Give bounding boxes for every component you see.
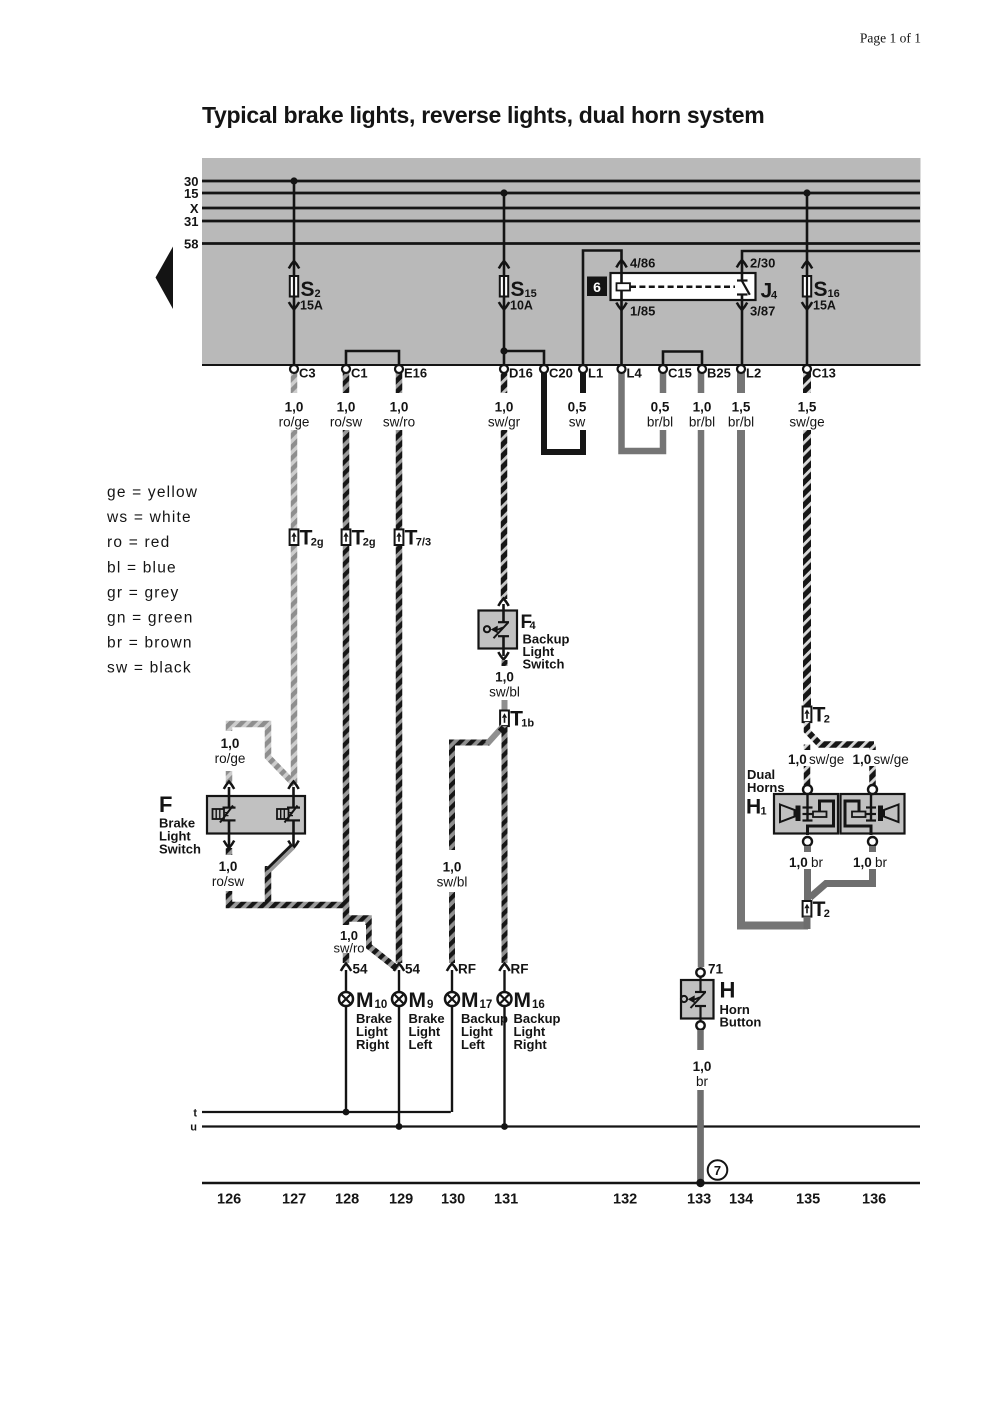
lamp M9 brake light left bbox=[392, 970, 445, 1052]
svg-text:15A: 15A bbox=[300, 299, 323, 313]
wire T2 to horns sw/ge bbox=[807, 722, 874, 785]
pin 1/85 bbox=[616, 303, 655, 319]
svg-text:RF: RF bbox=[511, 962, 529, 977]
wire T2 lower to L2 junction bbox=[804, 917, 811, 930]
svg-text:1,0: 1,0 bbox=[495, 670, 514, 685]
svg-text:1: 1 bbox=[761, 806, 767, 818]
svg-text:M: M bbox=[356, 989, 374, 1012]
diagram title bbox=[202, 102, 764, 128]
brake light switch F bbox=[159, 782, 305, 857]
svg-text:130: 130 bbox=[441, 1192, 465, 1208]
svg-text:1,0: 1,0 bbox=[390, 400, 409, 415]
horn button H bbox=[681, 977, 762, 1030]
lamp M17 backup light left bbox=[445, 970, 508, 1052]
svg-text:M: M bbox=[461, 989, 479, 1012]
svg-text:1,0: 1,0 bbox=[693, 400, 712, 415]
svg-text:1/85: 1/85 bbox=[630, 304, 655, 319]
current track numbers bbox=[217, 1192, 886, 1208]
fuse S16 15A bbox=[802, 189, 840, 368]
svg-text:7: 7 bbox=[714, 1163, 721, 1178]
fuse S2 15A bbox=[289, 177, 323, 368]
svg-text:sw/ge: sw/ge bbox=[809, 752, 844, 767]
connector T1b bbox=[500, 708, 534, 731]
horn button lower terminal bbox=[696, 1021, 704, 1029]
wire T1b to M16 sw/bl bbox=[502, 726, 508, 963]
svg-text:129: 129 bbox=[389, 1192, 413, 1208]
svg-text:54: 54 bbox=[405, 962, 421, 977]
wire labels below terminals bbox=[275, 393, 826, 430]
label dual horns H1 bbox=[746, 767, 785, 819]
svg-text:br = brown: br = brown bbox=[107, 635, 193, 652]
svg-text:br/bl: br/bl bbox=[689, 415, 715, 430]
svg-text:sw: sw bbox=[569, 415, 586, 430]
ground junction dot 133 bbox=[696, 1179, 704, 1187]
wire F4 to T1b sw/bl bbox=[502, 660, 508, 711]
svg-text:C1: C1 bbox=[351, 366, 368, 381]
svg-text:10: 10 bbox=[375, 999, 388, 1011]
svg-text:sw/ge: sw/ge bbox=[789, 415, 824, 430]
svg-text:sw/ro: sw/ro bbox=[333, 941, 364, 956]
svg-text:gr = grey: gr = grey bbox=[107, 584, 179, 601]
svg-text:131: 131 bbox=[494, 1192, 518, 1208]
svg-text:127: 127 bbox=[282, 1192, 306, 1208]
ground wire M16 bbox=[503, 1006, 505, 1127]
svg-text:0,5: 0,5 bbox=[651, 400, 670, 415]
wire C13 sw/ge bbox=[803, 371, 811, 707]
svg-text:134: 134 bbox=[729, 1192, 753, 1208]
wire branch to M17 sw/bl bbox=[452, 727, 504, 964]
svg-text:Horns: Horns bbox=[747, 780, 785, 795]
svg-text:15: 15 bbox=[184, 186, 198, 201]
wire horn grounds br bbox=[808, 846, 873, 901]
svg-text:1,0: 1,0 bbox=[221, 736, 240, 751]
svg-text:C15: C15 bbox=[668, 366, 692, 381]
svg-text:br/bl: br/bl bbox=[728, 415, 754, 430]
svg-text:L4: L4 bbox=[627, 366, 643, 381]
connector T2g on C1 wire bbox=[342, 526, 376, 549]
svg-text:Button: Button bbox=[720, 1015, 762, 1030]
svg-text:2g: 2g bbox=[311, 536, 324, 548]
connector T7/3 on E16 wire bbox=[395, 526, 431, 549]
svg-text:6: 6 bbox=[593, 279, 601, 295]
label 1,0 br under horn button bbox=[683, 1050, 719, 1090]
svg-text:Right: Right bbox=[514, 1037, 548, 1052]
svg-text:1,0: 1,0 bbox=[853, 752, 872, 767]
svg-text:t: t bbox=[193, 1108, 197, 1120]
relay J4 horn relay bbox=[587, 273, 778, 303]
svg-text:1,0: 1,0 bbox=[285, 400, 304, 415]
svg-text:9: 9 bbox=[427, 999, 433, 1011]
lamp M10 brake light right bbox=[339, 970, 392, 1052]
junction dots on ground buses bbox=[343, 1109, 508, 1130]
svg-text:133: 133 bbox=[687, 1192, 711, 1208]
svg-text:10A: 10A bbox=[510, 299, 533, 313]
wire junction to M10 bbox=[343, 905, 350, 963]
svg-text:1,0: 1,0 bbox=[693, 1059, 712, 1074]
wire C1 ro/sw bbox=[343, 371, 350, 908]
horn 2 of H1 bbox=[841, 788, 905, 835]
svg-text:D16: D16 bbox=[509, 366, 533, 381]
svg-text:7/3: 7/3 bbox=[416, 536, 431, 548]
page header bbox=[860, 31, 921, 46]
svg-text:M: M bbox=[409, 989, 427, 1012]
svg-text:br: br bbox=[696, 1074, 709, 1089]
terminal RF at M17 bbox=[447, 962, 476, 977]
label 1,0 ro/ge above F bbox=[211, 731, 249, 771]
bus bar 30 bbox=[184, 174, 920, 189]
wire E16 sw/ro bbox=[396, 371, 403, 963]
label 1,0 sw/bl under F4 bbox=[486, 666, 523, 700]
svg-text:1,0: 1,0 bbox=[789, 855, 808, 870]
labels 1,0 br at horns bbox=[788, 852, 890, 870]
wire C20-L1 sw loop bbox=[544, 371, 583, 452]
bus bar 15 bbox=[184, 186, 920, 201]
svg-text:Typical brake lights, reverse: Typical brake lights, reverse lights, du… bbox=[202, 102, 764, 128]
svg-text:135: 135 bbox=[796, 1192, 820, 1208]
svg-text:132: 132 bbox=[613, 1192, 637, 1208]
svg-text:C13: C13 bbox=[812, 366, 836, 381]
svg-text:3/87: 3/87 bbox=[750, 304, 775, 319]
svg-text:C3: C3 bbox=[299, 366, 316, 381]
pin 2/30 bbox=[737, 256, 776, 271]
svg-text:0,5: 0,5 bbox=[568, 400, 587, 415]
svg-text:Switch: Switch bbox=[523, 657, 565, 672]
ground wire M10 bbox=[345, 1006, 347, 1112]
wire jumper ro/sw below F bbox=[229, 845, 346, 905]
svg-text:br: br bbox=[811, 855, 824, 870]
backup light switch F4 bbox=[479, 599, 570, 672]
svg-text:4/86: 4/86 bbox=[630, 256, 655, 271]
svg-text:H: H bbox=[720, 978, 736, 1003]
labels 1,0 sw/ge at horns bbox=[788, 750, 909, 767]
wire J4 pin 3/87 to L2 bbox=[741, 295, 744, 369]
svg-text:ro/ge: ro/ge bbox=[279, 415, 310, 430]
bus bar X bbox=[190, 201, 920, 216]
svg-text:15A: 15A bbox=[813, 299, 836, 313]
svg-text:ro/sw: ro/sw bbox=[212, 874, 245, 889]
svg-text:Switch: Switch bbox=[159, 842, 201, 857]
svg-text:sw/bl: sw/bl bbox=[437, 875, 468, 890]
svg-text:1,0: 1,0 bbox=[443, 860, 462, 875]
label 1,0 ro/sw below F bbox=[209, 855, 249, 891]
svg-text:1,0: 1,0 bbox=[788, 752, 807, 767]
ground bus u bbox=[190, 1122, 920, 1134]
label 1,0 sw/bl on M17 branch bbox=[433, 850, 473, 892]
svg-text:gn = green: gn = green bbox=[107, 610, 194, 627]
svg-text:H: H bbox=[746, 796, 761, 819]
bus bar 31 bbox=[184, 214, 920, 229]
svg-text:54: 54 bbox=[353, 962, 369, 977]
bridge D16-C20 with junction bbox=[500, 347, 544, 368]
svg-text:31: 31 bbox=[184, 214, 198, 229]
svg-text:F: F bbox=[159, 792, 172, 817]
svg-text:136: 136 bbox=[862, 1192, 886, 1208]
svg-text:sw/ro: sw/ro bbox=[383, 415, 415, 430]
wire horn button to ground br bbox=[697, 1030, 704, 1183]
svg-text:Left: Left bbox=[461, 1037, 486, 1052]
svg-text:L1: L1 bbox=[588, 366, 603, 381]
svg-text:126: 126 bbox=[217, 1192, 241, 1208]
svg-text:71: 71 bbox=[708, 962, 724, 977]
wire L4-C15 br/bl loop bbox=[622, 371, 664, 451]
wire zigzag to M9 bbox=[346, 919, 398, 970]
svg-text:sw/ge: sw/ge bbox=[874, 752, 909, 767]
lamp M16 backup light right bbox=[498, 970, 561, 1052]
svg-text:1,0: 1,0 bbox=[337, 400, 356, 415]
svg-text:sw = black: sw = black bbox=[107, 660, 192, 677]
terminal circles and names at band bottom bbox=[290, 365, 836, 381]
wire J4 pin 1/85 to L4 bbox=[620, 291, 623, 369]
svg-text:E16: E16 bbox=[404, 366, 427, 381]
label 1,0 sw/ro above M10 bbox=[330, 925, 366, 956]
svg-text:2/30: 2/30 bbox=[750, 256, 775, 271]
svg-text:ro/sw: ro/sw bbox=[330, 415, 363, 430]
svg-text:2: 2 bbox=[824, 714, 830, 726]
svg-text:u: u bbox=[190, 1122, 197, 1134]
horn 1 of H1 bbox=[774, 788, 838, 835]
connector T2 upper bbox=[803, 704, 830, 727]
bridge C15-B25 bbox=[663, 352, 702, 369]
svg-text:4: 4 bbox=[771, 290, 778, 302]
svg-text:128: 128 bbox=[335, 1192, 359, 1208]
wire B25 br/bl to horn button bbox=[698, 371, 705, 967]
svg-text:M: M bbox=[514, 989, 532, 1012]
power supply band bbox=[202, 158, 921, 366]
svg-text:sw/bl: sw/bl bbox=[489, 685, 520, 700]
svg-text:2g: 2g bbox=[363, 536, 376, 548]
current track rail bbox=[202, 1182, 920, 1184]
svg-text:2: 2 bbox=[824, 908, 830, 920]
svg-text:17: 17 bbox=[480, 999, 493, 1011]
svg-text:br/bl: br/bl bbox=[647, 415, 673, 430]
wire J4 pin 4/86 to L1 bbox=[583, 251, 622, 369]
pin 3/87 bbox=[737, 303, 776, 319]
svg-text:ge = yellow: ge = yellow bbox=[107, 484, 198, 501]
svg-text:L2: L2 bbox=[746, 366, 761, 381]
svg-text:Right: Right bbox=[356, 1037, 390, 1052]
ground designation 7 bbox=[708, 1160, 728, 1180]
svg-text:sw/gr: sw/gr bbox=[488, 415, 521, 430]
bridge C1-E16 bbox=[346, 351, 399, 369]
svg-text:58: 58 bbox=[184, 236, 198, 251]
colour code legend bbox=[106, 484, 198, 677]
bus bar 58 bbox=[184, 236, 920, 251]
connector T2 lower bbox=[803, 898, 830, 921]
ground bus t bbox=[193, 1108, 450, 1120]
svg-text:1,0: 1,0 bbox=[853, 855, 872, 870]
wire C3 ro/ge bbox=[291, 371, 298, 783]
ground wire M9 bbox=[398, 1006, 400, 1127]
svg-text:1b: 1b bbox=[521, 718, 534, 730]
svg-text:1,0: 1,0 bbox=[495, 400, 514, 415]
wire D16 sw/gr bbox=[501, 371, 508, 599]
terminal RF at M16 bbox=[499, 962, 528, 977]
svg-text:16: 16 bbox=[532, 999, 545, 1011]
svg-text:B25: B25 bbox=[707, 366, 731, 381]
wire jumper ro/ge above F bbox=[229, 724, 295, 785]
page-link arrow bbox=[156, 247, 174, 310]
svg-text:1,5: 1,5 bbox=[798, 400, 817, 415]
svg-text:C20: C20 bbox=[549, 366, 573, 381]
svg-text:1,0: 1,0 bbox=[219, 859, 238, 874]
terminal 54 at M10 bbox=[341, 962, 368, 977]
svg-text:ro/ge: ro/ge bbox=[215, 751, 246, 766]
ground wire M17 bbox=[451, 1006, 453, 1112]
terminal 54 at M9 bbox=[394, 962, 421, 977]
svg-text:4: 4 bbox=[530, 620, 537, 632]
svg-text:Page 1 of 1: Page 1 of 1 bbox=[860, 31, 921, 46]
svg-text:1,5: 1,5 bbox=[732, 400, 751, 415]
wire crossing over u bus bbox=[697, 1120, 704, 1183]
svg-text:Left: Left bbox=[409, 1037, 434, 1052]
wire J4 pin 2/30 to band edge bbox=[742, 251, 920, 281]
svg-text:ro = red: ro = red bbox=[107, 534, 170, 551]
terminal 71 bbox=[696, 962, 723, 977]
wire L2 br/bl bbox=[741, 371, 808, 926]
svg-text:RF: RF bbox=[458, 962, 476, 977]
svg-text:ws = white: ws = white bbox=[106, 509, 192, 526]
fuse S15 10A bbox=[499, 189, 537, 368]
pin 4/86 bbox=[616, 256, 655, 271]
svg-text:br: br bbox=[875, 855, 888, 870]
horn terminals bbox=[803, 785, 877, 846]
connector T2g on C3 wire bbox=[290, 526, 324, 549]
svg-text:bl = blue: bl = blue bbox=[107, 559, 177, 576]
